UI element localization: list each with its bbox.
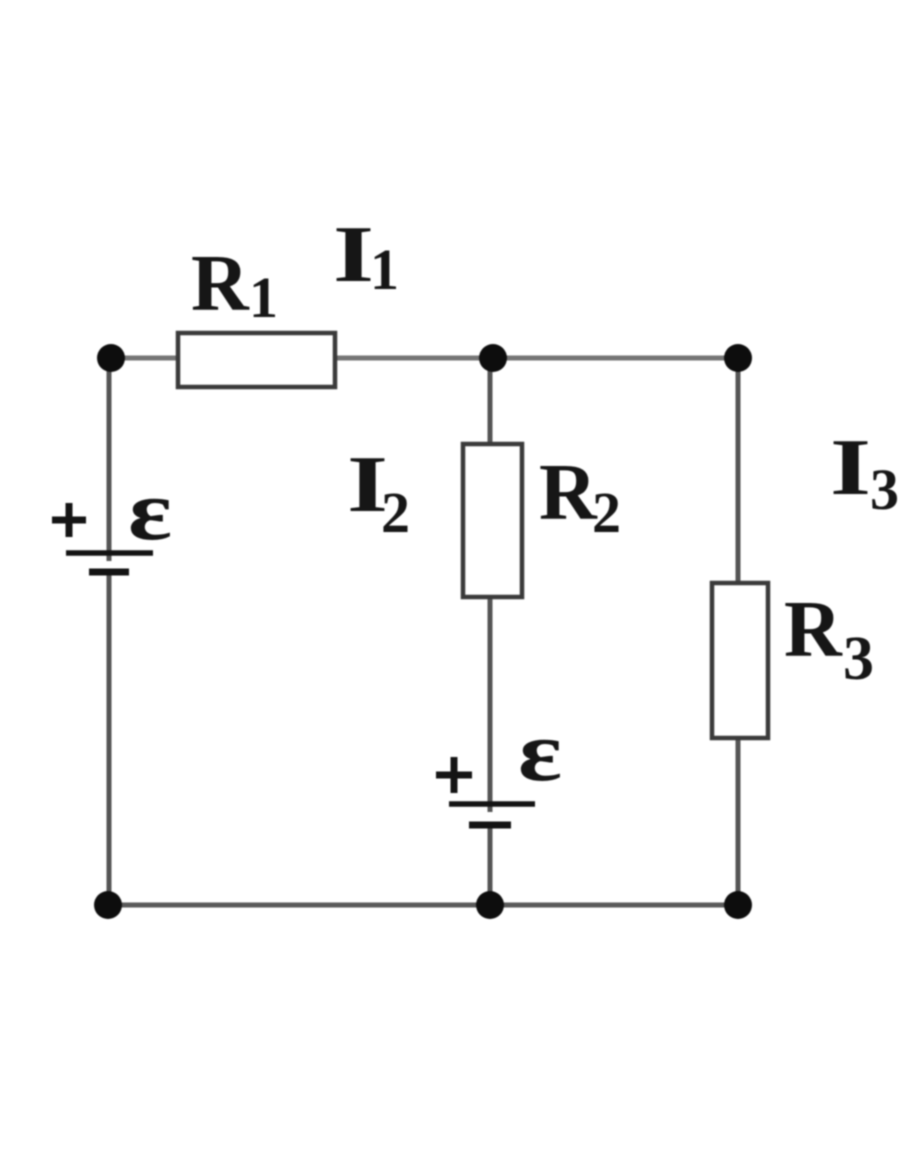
wire bottom segment (node D to node F) — [108, 903, 738, 908]
battery B1 short plate — [89, 569, 129, 576]
battery B2 short plate — [469, 822, 511, 829]
wire top-left segment (node A to R1) — [111, 356, 178, 361]
node F (bottom-right junction) — [724, 891, 752, 919]
svg-text:1: 1 — [370, 237, 399, 302]
svg-text:R: R — [539, 449, 598, 537]
wire left branch upper (node A to battery) — [107, 358, 112, 561]
svg-text:2: 2 — [381, 480, 410, 545]
svg-text:ε: ε — [518, 703, 562, 799]
svg-text:3: 3 — [843, 625, 874, 693]
resistor R2 — [463, 444, 522, 597]
battery B2 long plate — [449, 801, 535, 807]
svg-text:I: I — [333, 211, 374, 299]
svg-text:1: 1 — [249, 265, 278, 330]
battery B1 plus sign — [52, 517, 86, 524]
node D (bottom-left junction) — [94, 891, 122, 919]
svg-text:I: I — [830, 424, 871, 512]
battery B1 long plate — [66, 550, 153, 556]
wire middle branch upper (node B to R2) — [488, 358, 493, 444]
wire left branch lower (battery to node D) — [107, 573, 112, 905]
svg-text:3: 3 — [870, 457, 899, 522]
resistor R1 — [178, 333, 335, 387]
svg-text:R: R — [191, 240, 250, 328]
wire top segment (R1 to node C) — [335, 356, 738, 361]
wire right branch upper (node C to R3) — [736, 358, 741, 583]
svg-text:R: R — [784, 586, 843, 674]
svg-text:ε: ε — [128, 462, 172, 558]
wire right branch lower (R3 to node F) — [736, 738, 741, 905]
battery B2 plus sign — [436, 772, 472, 779]
node E (bottom-middle junction) — [476, 891, 504, 919]
resistor R3 — [712, 583, 768, 738]
node A (top-left junction) — [97, 344, 125, 372]
wire middle branch lower (battery 2 to node E) — [488, 826, 493, 905]
node C (top-right junction) — [724, 344, 752, 372]
wire middle branch mid (R2 to battery 2) — [488, 597, 493, 812]
svg-text:2: 2 — [592, 480, 621, 545]
node B (top-middle junction) — [479, 344, 507, 372]
